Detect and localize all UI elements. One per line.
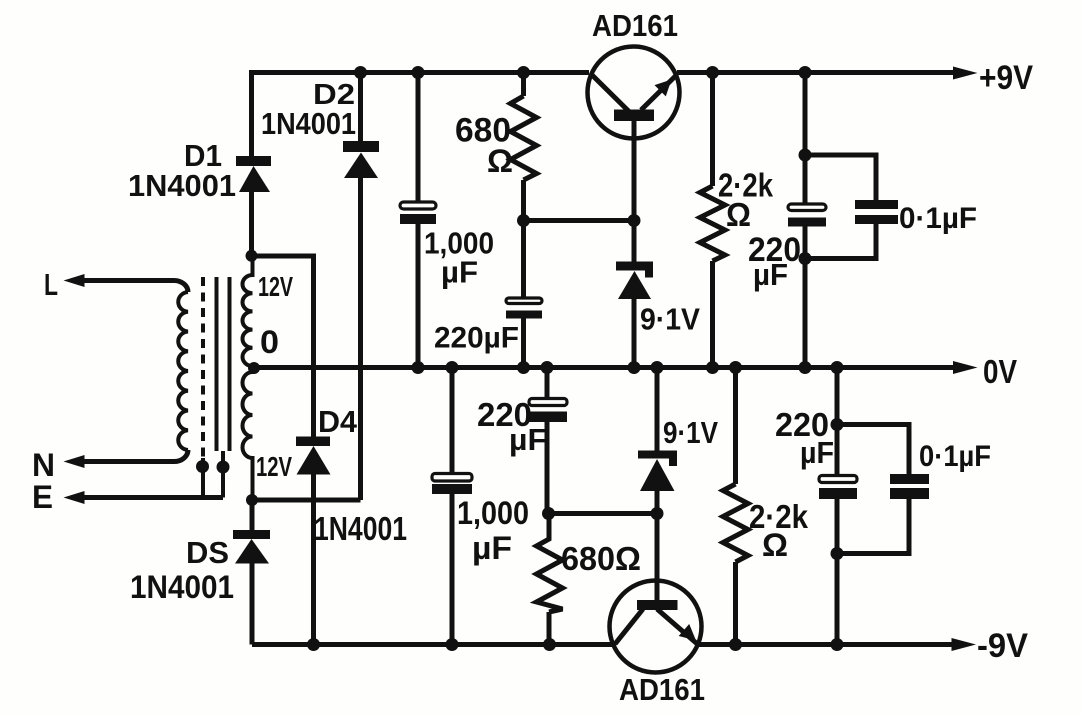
svg-text:12V: 12V	[256, 451, 292, 482]
svg-text:N: N	[32, 447, 55, 483]
diode D1	[236, 156, 271, 192]
junction secondary bottom terminal	[246, 494, 258, 506]
wire C4 branch upper	[835, 368, 840, 475]
svg-text:DS: DS	[186, 535, 229, 570]
zener Z2 9.1V	[638, 451, 677, 492]
wire R2 2.2k upper lead	[710, 73, 715, 187]
diode D2	[343, 141, 379, 178]
svg-text:µF: µF	[800, 435, 834, 470]
svg-text:-9V: -9V	[977, 627, 1028, 665]
junction dots 0V rail	[412, 361, 425, 374]
wire -9V rail right segment	[697, 642, 952, 647]
junction secondary top terminal	[246, 250, 258, 262]
junction C4 bottom split	[831, 547, 844, 560]
N arrowhead	[64, 455, 85, 468]
wire C6 lower lead	[450, 494, 455, 645]
L arrowhead	[64, 274, 85, 287]
wire D4 branch lower	[311, 475, 316, 645]
capacitor C5 220uF plates	[529, 399, 567, 423]
wire secondary top terminal to D4	[252, 254, 314, 259]
junction Z2-R3 node	[651, 507, 664, 520]
wire C3a bottom link	[805, 224, 876, 259]
Q1 emitter arrowhead	[655, 80, 672, 97]
wire R1 680 upper lead	[521, 73, 526, 97]
svg-text:L: L	[44, 267, 58, 302]
capacitor C6 1000uF plates	[432, 474, 472, 495]
capacitor C1 1000uF plates	[400, 202, 436, 224]
svg-text:1N4001: 1N4001	[314, 510, 407, 547]
transformer screen dashed line	[201, 277, 205, 458]
svg-text:µF: µF	[509, 422, 547, 457]
resistor R3 680 zigzag	[537, 514, 563, 613]
transformer core line 2	[228, 277, 232, 451]
svg-text:1,000: 1,000	[457, 495, 529, 531]
svg-text:AD161: AD161	[619, 672, 705, 707]
svg-text:E: E	[32, 479, 53, 515]
wire +9V rail right segment	[677, 70, 953, 75]
transformer primary winding with L lead	[80, 281, 188, 293]
wire +9V rail left segment	[252, 70, 590, 75]
wire Z1 lower lead	[632, 299, 637, 368]
svg-text:220µF: 220µF	[434, 322, 519, 355]
svg-text:µF: µF	[472, 530, 512, 566]
wire C3 branch upper	[803, 73, 808, 203]
transformer core line 1	[215, 277, 219, 451]
capacitor C4 220uF plates	[819, 476, 857, 500]
capacitor C2 220uF plates	[506, 298, 542, 319]
primary winding bumps	[178, 292, 188, 450]
wire C4a bottom link	[837, 499, 909, 554]
svg-text:9·1V: 9·1V	[663, 415, 718, 450]
svg-text:AD161: AD161	[592, 8, 678, 43]
svg-text:0·1µF: 0·1µF	[919, 440, 991, 473]
wire R4 2.2k upper lead	[733, 368, 738, 485]
junction secondary centre tap	[248, 362, 260, 374]
diode D4	[296, 437, 331, 475]
secondary winding upper half	[242, 256, 252, 368]
svg-text:680Ω: 680Ω	[561, 540, 641, 577]
secondary winding lower half	[243, 368, 253, 500]
wire D1 branch lower	[249, 192, 254, 256]
Q2 collector diagonal	[615, 609, 643, 644]
wire E lead	[80, 495, 223, 500]
Q2 emitter arrowhead	[679, 624, 696, 641]
resistor R2 2.2k zigzag	[700, 186, 725, 261]
junction C3 bottom split	[799, 252, 812, 265]
transistor Q1 AD161 circle	[588, 47, 680, 139]
svg-text:12V: 12V	[258, 271, 293, 302]
wire Z2 to Q2 base	[655, 491, 660, 600]
junction C5-R3 node	[542, 507, 555, 520]
wire R2 lower lead	[710, 261, 715, 368]
transformer primary bottom lead to N	[80, 450, 188, 462]
junction screen-earth	[196, 460, 209, 473]
transistor Q2 AD161 circle	[610, 581, 702, 673]
resistor R4 2.2k zigzag	[723, 484, 748, 562]
svg-text:1N4001: 1N4001	[128, 168, 236, 203]
wire C4 lower lead	[835, 499, 840, 645]
wire R1 to C2	[521, 180, 526, 297]
junction dots -9V rail	[307, 638, 320, 651]
svg-text:1N4001: 1N4001	[261, 106, 356, 141]
+9V arrowhead	[953, 67, 978, 80]
junction dots top rail	[354, 66, 367, 79]
core earth stub	[221, 451, 225, 498]
svg-text:Ω: Ω	[762, 527, 788, 563]
wire DS branch lower	[250, 564, 255, 645]
capacitor C3a 0.1uF plates	[855, 200, 898, 224]
wire C5 lower lead	[545, 422, 550, 514]
svg-text:+9V: +9V	[979, 59, 1033, 97]
Q2 emitter diagonal	[657, 609, 699, 645]
resistor R1 680 zigzag	[511, 96, 537, 180]
E arrowhead	[64, 491, 85, 504]
wire D1 branch upper	[249, 70, 254, 156]
wire -9V rail left segment	[252, 642, 616, 647]
wire 0V rail	[254, 365, 953, 370]
zener Z1 9.1V	[616, 262, 653, 300]
svg-text:1N4001: 1N4001	[130, 569, 234, 605]
Q1 collector diagonal	[591, 74, 629, 112]
svg-text:Ω: Ω	[487, 143, 513, 179]
junction core-earth	[217, 461, 230, 474]
wire C2 lower lead	[521, 319, 526, 368]
wire C6 1000uF upper lead	[450, 368, 455, 473]
wire DS branch upper	[250, 500, 255, 530]
capacitor C4a 0.1uF plates	[890, 474, 929, 499]
wire R4 lower lead	[733, 562, 738, 645]
junction R1-C2 node	[517, 214, 530, 227]
wire Z2 upper lead	[655, 368, 660, 451]
junction base-680 node	[628, 214, 641, 227]
svg-text:Ω: Ω	[726, 196, 751, 233]
wire C4a top link	[837, 425, 909, 475]
wire Q1 base lead	[632, 121, 637, 262]
svg-text:0V: 0V	[983, 353, 1017, 390]
wire R3 lower lead	[547, 612, 552, 645]
wire D2 branch	[358, 73, 363, 501]
svg-text:µF: µF	[753, 257, 788, 292]
wire C1 1000uF lower lead	[416, 224, 421, 368]
Q1 emitter diagonal	[641, 75, 677, 110]
wire secondary bottom terminal to D2 anode	[252, 498, 361, 503]
wire C3a top link	[805, 155, 876, 200]
wire C1 1000uF upper lead	[416, 73, 421, 202]
Q1 base bar	[614, 110, 654, 122]
wire C3 lower lead	[803, 227, 808, 368]
wire C5 220uF upper lead	[545, 368, 550, 398]
svg-text:µF: µF	[441, 255, 478, 290]
diode DS	[233, 530, 270, 564]
svg-text:9·1V: 9·1V	[640, 302, 700, 337]
junction C4 top split	[831, 418, 844, 431]
wire base feed bottom	[548, 511, 657, 516]
wire D4 branch upper	[311, 254, 316, 437]
capacitor C3 220uF plates	[788, 204, 826, 227]
0V arrowhead	[953, 361, 978, 374]
svg-text:0: 0	[260, 324, 279, 360]
wire base feed top	[524, 218, 635, 223]
-9V arrowhead	[952, 638, 977, 651]
svg-text:0·1µF: 0·1µF	[899, 202, 977, 235]
svg-text:D4: D4	[318, 404, 358, 439]
junction C3 top split	[799, 149, 812, 162]
screen earth stub	[201, 458, 205, 498]
Q2 base bar	[637, 600, 678, 610]
